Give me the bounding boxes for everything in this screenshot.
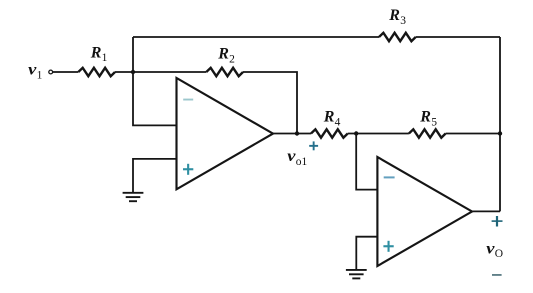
wire node A up to top feedback line (132, 37, 134, 72)
svg-text:R: R (388, 7, 400, 24)
resistor R2 (206, 68, 243, 76)
wire node A down to inverting input of op-amp U1 (133, 72, 177, 125)
svg-text:5: 5 (431, 117, 437, 129)
svg-text:O: O (495, 248, 503, 260)
svg-text:3: 3 (400, 15, 406, 27)
wire R4 to node C and on to R5 (348, 133, 409, 135)
ground (op-amp U1) (123, 193, 144, 201)
wire right vertical down to output node (499, 37, 501, 211)
ground (op-amp U2) (346, 270, 367, 279)
wire R2 to corner above op-amp 1 output (243, 72, 297, 134)
resistor R3 (379, 33, 416, 41)
op-amp U1 inverting input marker (minus) (183, 99, 193, 101)
node A (junction dot) (131, 70, 135, 74)
resistor R5 (409, 129, 446, 137)
wire non-inverting input of U2 to ground (356, 237, 377, 270)
svg-text:R: R (323, 109, 335, 126)
label vo1 (287, 148, 307, 168)
minus sign at output vO (492, 274, 502, 276)
node C (junction dot between R4 and R5) (354, 131, 358, 135)
label v1 (28, 62, 42, 82)
svg-text:4: 4 (335, 117, 341, 129)
op-amp U1 non-inverting input marker (plus) (183, 164, 193, 175)
label R3 (388, 7, 406, 27)
label R4 (323, 109, 341, 129)
wire op-amp U1 output to R4 (273, 133, 311, 135)
svg-text:1: 1 (37, 70, 43, 82)
wire R5 to node D on right vertical (446, 133, 500, 135)
label vO (486, 240, 503, 260)
op-amp U2 non-inverting input marker (plus) (383, 241, 393, 252)
wire node C down to inverting input of op-amp U2 (356, 134, 377, 190)
wire R1 to node A and on to R2 (115, 71, 206, 73)
label R5 (419, 109, 437, 129)
wire top feedback line right segment (416, 36, 500, 38)
node vo1 (junction dot) (295, 131, 299, 135)
resistor R1 (78, 68, 115, 76)
input terminal (open circle) (49, 70, 53, 74)
op-amp U1 (triangle) (177, 78, 274, 189)
plus sign at node vo1 (309, 141, 318, 150)
svg-text:R: R (419, 109, 431, 126)
node D (junction dot on feedback line) (498, 131, 502, 135)
svg-text:1: 1 (102, 52, 108, 64)
label R1 (90, 44, 108, 64)
svg-text:R: R (217, 46, 229, 63)
svg-text:2: 2 (229, 53, 235, 65)
plus sign at output vO (492, 216, 503, 227)
svg-text:o1: o1 (296, 156, 308, 168)
wire non-inverting input of U1 to ground (133, 159, 177, 192)
label R2 (217, 46, 235, 66)
svg-text:R: R (90, 44, 102, 61)
op-amp U2 inverting input marker (minus) (384, 176, 395, 178)
wire op-amp U2 output to right vertical (472, 210, 500, 212)
wire top feedback line left segment (133, 36, 379, 38)
resistor R4 (311, 129, 348, 137)
op-amp U2 (triangle) (377, 157, 472, 266)
wire input to R1 (53, 71, 79, 73)
